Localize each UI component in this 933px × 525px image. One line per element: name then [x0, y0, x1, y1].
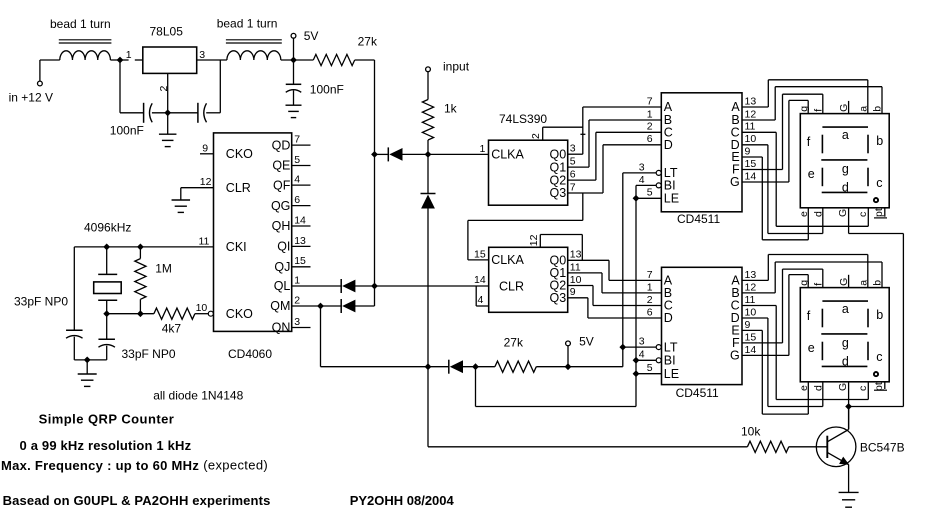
svg-text:QJ: QJ	[274, 260, 290, 274]
svg-text:QL: QL	[274, 279, 291, 293]
svg-text:12: 12	[528, 234, 540, 246]
svg-text:b: b	[872, 106, 884, 112]
svg-text:10: 10	[570, 274, 582, 286]
svg-text:14: 14	[745, 344, 757, 356]
svg-text:6: 6	[570, 169, 576, 181]
svg-text:g: g	[842, 336, 849, 350]
svg-text:10: 10	[745, 306, 757, 318]
svg-text:1: 1	[647, 281, 653, 293]
svg-text:bead 1 turn: bead 1 turn	[50, 17, 111, 31]
svg-text:QM: QM	[270, 299, 290, 313]
svg-text:1: 1	[126, 49, 132, 61]
svg-text:f: f	[813, 109, 825, 112]
svg-text:13: 13	[745, 95, 757, 107]
svg-text:e: e	[808, 167, 815, 181]
svg-text:4096kHz: 4096kHz	[84, 220, 131, 234]
svg-text:78L05: 78L05	[150, 24, 184, 38]
svg-text:bead 1 turn: bead 1 turn	[217, 16, 278, 30]
svg-text:g: g	[798, 280, 810, 286]
svg-text:d: d	[812, 211, 824, 217]
svg-text:G: G	[838, 104, 850, 112]
svg-text:Q1: Q1	[550, 160, 567, 174]
svg-text:f: f	[807, 309, 811, 323]
svg-text:a: a	[842, 302, 849, 316]
svg-text:BI: BI	[664, 179, 676, 193]
svg-text:9: 9	[202, 142, 208, 154]
svg-text:5V: 5V	[304, 29, 319, 43]
svg-text:Q3: Q3	[550, 186, 567, 200]
svg-text:13: 13	[745, 269, 757, 281]
svg-text:2: 2	[647, 121, 653, 133]
svg-text:G: G	[838, 278, 850, 286]
svg-text:G: G	[837, 383, 849, 391]
svg-text:4: 4	[478, 294, 484, 306]
svg-text:1k: 1k	[444, 101, 458, 115]
svg-text:D: D	[664, 311, 673, 325]
svg-text:11: 11	[199, 235, 210, 247]
svg-text:10: 10	[196, 302, 208, 314]
svg-text:7: 7	[647, 95, 653, 107]
svg-text:(expected): (expected)	[203, 458, 268, 473]
svg-text:a: a	[857, 280, 869, 286]
svg-text:5: 5	[294, 154, 300, 166]
svg-text:f: f	[807, 135, 811, 149]
svg-text:5: 5	[570, 156, 576, 168]
svg-text:Q2: Q2	[550, 173, 567, 187]
svg-text:7: 7	[294, 134, 300, 146]
svg-text:3: 3	[294, 316, 300, 328]
svg-text:d: d	[842, 180, 849, 194]
svg-text:input: input	[443, 59, 470, 73]
svg-text:all diode 1N4148: all diode 1N4148	[153, 388, 243, 402]
svg-text:0 a 99 kHz resolution 1 kHz: 0 a 99 kHz resolution 1 kHz	[20, 438, 192, 453]
svg-text:QG: QG	[271, 199, 290, 213]
svg-text:b: b	[872, 280, 884, 286]
svg-text:3: 3	[199, 49, 205, 61]
svg-text:a: a	[857, 106, 869, 112]
svg-text:12: 12	[745, 281, 757, 293]
svg-text:c: c	[876, 176, 882, 190]
svg-text:5V: 5V	[579, 334, 594, 348]
svg-text:BI: BI	[664, 354, 676, 368]
svg-text:CKO: CKO	[226, 147, 253, 161]
svg-text:100nF: 100nF	[310, 82, 344, 96]
svg-text:LE: LE	[664, 192, 679, 206]
svg-text:LT: LT	[664, 340, 678, 354]
svg-text:f: f	[813, 283, 825, 286]
svg-text:CKO: CKO	[226, 307, 253, 321]
svg-text:4: 4	[639, 174, 645, 186]
svg-text:g: g	[798, 106, 810, 112]
svg-text:1: 1	[647, 108, 653, 120]
svg-text:2: 2	[647, 294, 653, 306]
svg-text:CD4511: CD4511	[677, 212, 720, 226]
svg-text:6: 6	[294, 194, 300, 206]
svg-text:CLR: CLR	[226, 181, 251, 195]
svg-text:15: 15	[294, 255, 306, 267]
svg-text:15: 15	[745, 331, 757, 343]
svg-text:QN: QN	[272, 321, 291, 335]
svg-text:3: 3	[639, 161, 645, 173]
svg-text:9: 9	[745, 145, 751, 157]
svg-text:13: 13	[570, 249, 582, 261]
svg-text:CLKA: CLKA	[491, 253, 524, 267]
svg-text:Q0: Q0	[550, 147, 567, 161]
svg-text:11: 11	[745, 294, 756, 306]
svg-text:QE: QE	[272, 159, 290, 173]
svg-text:33pF NP0: 33pF NP0	[122, 347, 176, 361]
svg-text:CLKA: CLKA	[491, 147, 524, 161]
svg-text:b: b	[876, 134, 883, 148]
svg-text:4: 4	[639, 349, 645, 361]
svg-text:LE: LE	[664, 367, 679, 381]
svg-text:14: 14	[474, 274, 486, 286]
svg-text:G: G	[730, 175, 740, 189]
svg-text:2: 2	[294, 294, 300, 306]
svg-text:4: 4	[294, 174, 300, 186]
svg-text:pt: pt	[873, 208, 885, 217]
svg-text:c: c	[857, 212, 869, 217]
svg-text:10k: 10k	[741, 424, 761, 438]
svg-text:2: 2	[158, 86, 170, 92]
svg-text:6: 6	[647, 306, 653, 318]
svg-text:Basead on G0UPL & PA2OHH exper: Basead on G0UPL & PA2OHH experiments	[3, 493, 271, 508]
svg-text:BC547B: BC547B	[860, 440, 905, 454]
svg-text:27k: 27k	[504, 336, 524, 350]
svg-text:QD: QD	[272, 138, 291, 152]
svg-text:in +12 V: in +12 V	[9, 90, 53, 104]
svg-text:b: b	[876, 308, 883, 322]
svg-text:CD4511: CD4511	[676, 386, 719, 400]
svg-text:11: 11	[745, 121, 756, 133]
svg-text:A: A	[664, 100, 673, 114]
svg-text:2: 2	[530, 133, 542, 139]
svg-text:QI: QI	[277, 240, 290, 254]
svg-text:14: 14	[294, 214, 306, 226]
svg-text:1M: 1M	[155, 261, 172, 275]
svg-text:1: 1	[294, 274, 300, 286]
svg-text:1: 1	[480, 143, 486, 155]
svg-text:g: g	[842, 162, 849, 176]
svg-text:CLR: CLR	[499, 280, 524, 294]
svg-text:CKI: CKI	[226, 240, 247, 254]
svg-text:5: 5	[647, 362, 653, 374]
svg-text:12: 12	[745, 108, 757, 120]
svg-text:3: 3	[570, 143, 576, 155]
svg-text:27k: 27k	[358, 35, 378, 49]
svg-text:74LS390: 74LS390	[499, 112, 547, 126]
svg-text:e: e	[798, 211, 810, 217]
svg-text:e: e	[808, 341, 815, 355]
svg-text:4k7: 4k7	[162, 322, 182, 336]
svg-text:7: 7	[647, 269, 653, 281]
svg-text:15: 15	[745, 158, 757, 170]
svg-text:9: 9	[570, 286, 576, 298]
svg-text:100nF: 100nF	[110, 124, 144, 138]
svg-text:d: d	[812, 385, 824, 391]
svg-text:A: A	[731, 100, 740, 114]
svg-text:Simple QRP Counter: Simple QRP Counter	[39, 411, 175, 426]
svg-text:PY2OHH 08/2004: PY2OHH 08/2004	[350, 493, 455, 508]
svg-text:QF: QF	[273, 178, 291, 192]
svg-text:D: D	[664, 138, 673, 152]
svg-text:15: 15	[474, 248, 486, 260]
svg-text:10: 10	[745, 133, 757, 145]
svg-text:G: G	[730, 349, 740, 363]
svg-text:6: 6	[647, 133, 653, 145]
svg-text:pt: pt	[873, 382, 885, 391]
svg-text:G: G	[837, 209, 849, 217]
svg-text:11: 11	[570, 261, 581, 273]
svg-text:a: a	[842, 128, 849, 142]
svg-text:7: 7	[570, 181, 576, 193]
svg-text:Max. Frequency : up to 60 MHz: Max. Frequency : up to 60 MHz	[1, 458, 199, 473]
svg-text:33pF NP0: 33pF NP0	[14, 294, 68, 308]
svg-text:c: c	[857, 386, 869, 391]
svg-text:d: d	[842, 354, 849, 368]
svg-text:CD4060: CD4060	[228, 347, 272, 361]
svg-text:14: 14	[745, 170, 757, 182]
svg-text:9: 9	[745, 319, 751, 331]
svg-text:c: c	[876, 350, 882, 364]
svg-text:e: e	[798, 385, 810, 391]
svg-text:12: 12	[200, 176, 212, 188]
svg-text:3: 3	[639, 336, 645, 348]
svg-text:13: 13	[294, 235, 306, 247]
svg-text:Q3: Q3	[550, 291, 567, 305]
svg-text:5: 5	[647, 187, 653, 199]
svg-text:QH: QH	[272, 219, 291, 233]
